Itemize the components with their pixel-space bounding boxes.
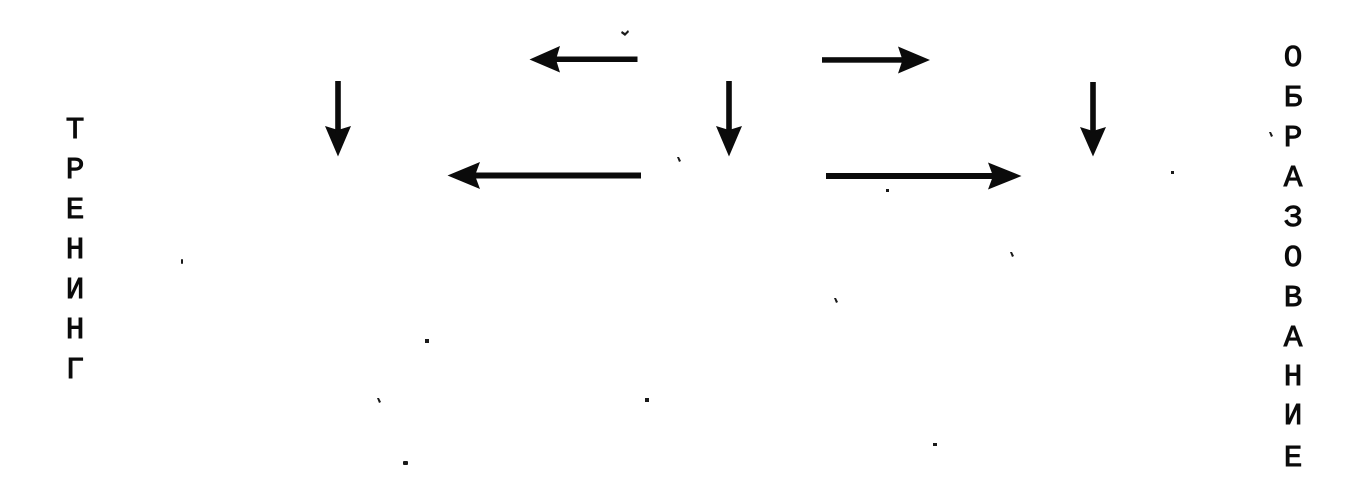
down arrow 3 <box>1080 127 1106 157</box>
svg-text:Н: Н <box>66 233 85 268</box>
speck below mid-left arrow <box>377 398 381 403</box>
speck left area <box>181 259 183 264</box>
speck mid area <box>425 339 429 343</box>
arrow top-left pointing left <box>530 46 561 73</box>
speck near arrow tail <box>834 298 838 303</box>
svg-text:А: А <box>1284 321 1303 356</box>
arrow top-right pointing right <box>898 47 930 74</box>
svg-text:Т: Т <box>66 113 85 148</box>
svg-text:И: И <box>1284 399 1303 434</box>
speck low right <box>933 443 937 446</box>
speck dot low <box>403 461 408 465</box>
speck near Р <box>1269 132 1273 137</box>
svg-text:Н: Н <box>66 313 85 348</box>
svg-text:О: О <box>1284 41 1303 76</box>
svg-text:В: В <box>1284 281 1303 316</box>
speck below mid-right arrow <box>886 189 889 192</box>
svg-text:З: З <box>1284 201 1303 236</box>
arrow mid-right pointing right <box>988 163 1022 190</box>
svg-text:Б: Б <box>1284 81 1303 116</box>
svg-text:Е: Е <box>66 193 85 228</box>
speck near top arrow <box>621 30 629 36</box>
svg-text:И: И <box>66 273 85 308</box>
svg-text:Р: Р <box>1284 121 1303 156</box>
speck right mid <box>1010 252 1014 257</box>
svg-text:Р: Р <box>66 153 85 188</box>
down arrow 1 <box>325 126 351 157</box>
svg-text:Е: Е <box>1284 441 1303 476</box>
right vertical label ОБРАЗОВАНИЕ <box>1284 41 1303 476</box>
speck dot <box>645 398 649 402</box>
svg-text:О: О <box>1284 241 1303 276</box>
left vertical label ТРЕНИНГ <box>66 113 85 388</box>
arrow mid-left pointing left <box>448 162 481 189</box>
down arrow 2 <box>716 126 742 157</box>
svg-text:Н: Н <box>1284 360 1303 395</box>
svg-text:Г: Г <box>66 353 85 388</box>
speck near down arrow 3 <box>1171 171 1174 174</box>
speck near down arrow 2 <box>677 157 681 162</box>
svg-text:А: А <box>1284 161 1303 196</box>
